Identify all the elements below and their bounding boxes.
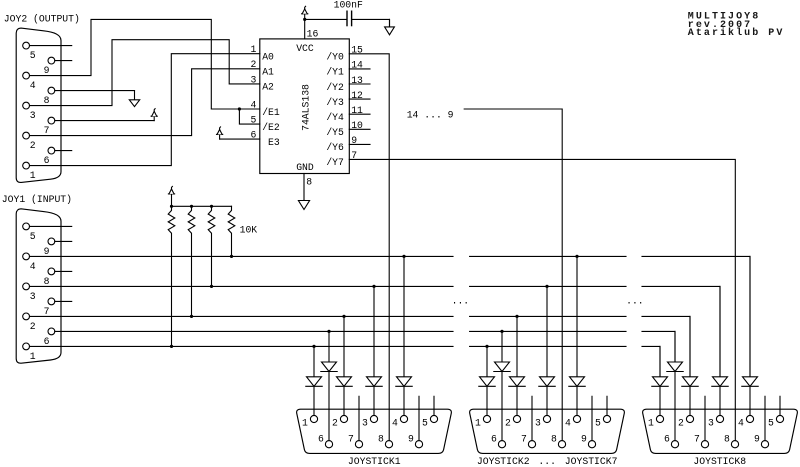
svg-text:6: 6 [664,434,670,445]
label JOY2 (OUTPUT) [4,14,80,25]
JOY2 pin circles and numbers [23,42,55,181]
wire diode to JOYSTICK8 pin1 [659,386,661,415]
svg-text:1: 1 [648,417,654,428]
power VCC above U1 [304,14,306,20]
svg-text:/Y4: /Y4 [326,112,344,123]
JOYSTICK1 pin circles and numbers [302,415,438,447]
resistor R2 10K [188,205,195,318]
wire JOYSTICK2 pin2 from bus [515,315,518,377]
svg-text:9: 9 [44,65,50,76]
label 14 ... 9 [407,110,454,121]
wire diode to JOYSTICK1 pin3 [373,386,375,415]
svg-text:2: 2 [678,417,684,428]
svg-text:2: 2 [505,417,511,428]
label JOY1 (INPUT) [2,194,72,205]
svg-text:8: 8 [724,434,730,445]
svg-text:8: 8 [44,276,50,287]
svg-text:4: 4 [392,417,398,428]
svg-text:JOYSTICK8: JOYSTICK8 [693,456,746,467]
diode D26 [494,362,510,372]
label JOYSTICK1 [348,456,401,467]
wire JOYSTICK2 pin3 from bus [545,285,548,377]
svg-text:JOY2 (OUTPUT): JOY2 (OUTPUT) [4,14,80,25]
svg-text:JOYSTICK2 ... JOYSTICK7: JOYSTICK2 ... JOYSTICK7 [477,456,618,467]
diode D22 [509,377,525,387]
wire JOY2 pin1 to U1 A0 [30,54,260,166]
diode D14 [396,377,412,387]
svg-text:74ALS138: 74ALS138 [301,84,312,131]
svg-text:3: 3 [30,110,36,121]
connector JOYSTICK8 body [643,409,798,453]
resistor R4 10K [228,206,235,258]
wire U1 E3 to VCC [220,138,260,140]
svg-text:3: 3 [250,74,256,85]
wire JOYSTICK8 pin3 from bus [719,286,721,376]
wire bus line JOY1 pin1 (right) [30,345,454,347]
wire JOY2 pin9 stub [55,60,72,62]
wire JOYSTICK1 pin6 from bus [327,330,330,362]
label 10K [240,224,258,235]
wire diode to JOYSTICK2 pin1 [486,386,488,415]
wire JOYSTICK8 pin2 from bus [689,316,691,376]
wire diode to JOYSTICK2 pin4 [576,386,578,415]
diode D86 [667,362,683,372]
wire JOYSTICK1 pin9 stub [418,396,420,440]
label pin number 8 [306,177,312,188]
svg-text:A1: A1 [262,67,274,78]
svg-text:9: 9 [754,434,760,445]
svg-text:8: 8 [378,434,384,445]
svg-text:6: 6 [44,155,50,166]
resistor R3 10K [208,205,215,288]
wire JOYSTICK2 pin1 from bus [485,345,488,377]
diode D11 [306,377,322,387]
ground below U1 [303,199,305,201]
svg-text:8: 8 [306,177,312,188]
wire diode to JOYSTICK1 pin4 [403,386,405,415]
wire U1 pin8 GND [303,174,305,201]
wire JOY2 pin5 stub [30,45,72,47]
wire JOYSTICK8 pin5 stub [779,396,781,415]
wire U1 pin16 VCC [304,19,306,39]
wire JOYSTICK1 pin2 from bus [342,315,345,377]
svg-text:VCC: VCC [296,43,314,54]
svg-text:5: 5 [422,417,428,428]
power VCC at JOY2 pin7 [153,116,155,120]
wire JOY2 pin7 to VCC [55,120,154,122]
wire diode to JOYSTICK1 pin1 [313,386,315,415]
wire pull-up rail [172,205,232,207]
wire diode to JOYSTICK2 pin2 [516,386,518,415]
label GND pin name [296,162,314,173]
wire JOY2 pin3 to U1 A2 [30,40,260,106]
diode D24 [569,377,585,387]
wire JOYSTICK1 pin5 stub [433,396,435,415]
resistor R1 10K [168,205,175,348]
svg-text:2: 2 [332,417,338,428]
wire diode to JOYSTICK8 pin2 [689,386,691,415]
svg-text:8: 8 [44,95,50,106]
wire JOYSTICK1 pin4 from bus [402,255,405,377]
wire JOYSTICK2 pin4 from bus [575,255,578,377]
svg-text:...: ... [626,295,644,306]
svg-text:100nF: 100nF [334,0,363,10]
svg-text:5: 5 [768,417,774,428]
wire diode to JOYSTICK1 pin6 [328,372,330,441]
wire JOY1 pin7 stub [55,300,72,302]
diode D81 [652,377,668,387]
svg-text:10K: 10K [240,224,258,235]
svg-text:8: 8 [551,434,557,445]
svg-text:1: 1 [30,170,36,181]
svg-text:9: 9 [581,434,587,445]
svg-text:/Y2: /Y2 [326,82,344,93]
wire VCC to capacitor [305,18,347,20]
svg-text:/Y1: /Y1 [326,67,344,78]
wire Y7 select to JOYSTICK8 pin8 [349,159,735,440]
label 100nF [334,0,363,10]
wire JOY2 pin8 to ground [55,90,135,92]
svg-text:JOY1 (INPUT): JOY1 (INPUT) [2,194,72,205]
svg-text:A2: A2 [262,82,274,93]
U1 output stubs Y1-Y6 [349,69,370,144]
ground at JOY2 pin8 [134,91,136,100]
wire diode to JOYSTICK2 pin6 [501,372,503,441]
wire diode to JOYSTICK8 pin6 [674,372,676,441]
svg-text:6: 6 [250,130,256,141]
wire bus line JOY1 pin2 (left) [30,315,454,317]
wire JOYSTICK1 pin7 stub [358,396,360,440]
diode D23 [539,377,555,387]
wire bus line JOY1 pin6 (trigger) [55,330,453,332]
diode D21 [479,377,495,387]
wire Y0 select to JOYSTICK1 pin8 [349,54,389,441]
svg-text:1: 1 [250,44,256,55]
diode D82 [682,377,698,387]
wire diode to JOYSTICK8 pin3 [719,386,721,415]
ground at capacitor [389,19,391,27]
diode D84 [742,377,758,387]
wire diode to JOYSTICK1 pin2 [343,386,345,415]
svg-text:/Y3: /Y3 [326,97,344,108]
diode D16 [321,362,337,372]
svg-text:7: 7 [348,434,354,445]
label U1 74ALS138 (rotated) [301,84,312,131]
wire JOY2 pin2 to U1 A1 [30,69,260,136]
svg-text:3: 3 [362,417,368,428]
wire JOYSTICK2 pin5 stub [606,396,608,415]
svg-text:7: 7 [694,434,700,445]
capacitor C1 100nF [347,11,352,25]
node E1/E2 junction [238,107,241,110]
diode D13 [366,377,382,387]
svg-text:3: 3 [708,417,714,428]
wire JOYSTICK8 pin6 from bus [674,331,676,362]
wire JOYSTICK1 pin1 from bus [312,345,315,377]
op-amp U1 74ALS138 body [260,39,350,174]
power VCC at pull-up rail [171,194,173,206]
connector JOY2 body [16,28,61,182]
svg-text:6: 6 [44,336,50,347]
diode D12 [336,377,352,387]
svg-text:3: 3 [30,291,36,302]
svg-text:3: 3 [535,417,541,428]
label JOYSTICK2 ... JOYSTICK7 [477,456,618,467]
svg-text:5: 5 [30,231,36,242]
wire JOYSTICK8 pin9 stub [764,396,766,440]
svg-text:5: 5 [595,417,601,428]
wire JOY2 pin6 stub [55,150,72,152]
svg-text:/Y7: /Y7 [326,157,344,168]
connector JOY1 body [16,209,61,363]
JOY1 pin circles and numbers [23,223,55,362]
wire bus line JOY1 pin3 (down) [30,285,454,287]
wire JOYSTICK2 pin6 from bus [500,330,503,362]
wire JOY1 pin9 stub [55,240,72,242]
JOYSTICK8 pin circles and numbers [648,415,784,447]
svg-text:9: 9 [408,434,414,445]
label pin number 16 [307,28,319,39]
connector JOYSTICK2 body [470,409,625,453]
JOYSTICK2 pin circles and numbers [475,415,611,447]
svg-text:/Y0: /Y0 [326,52,344,63]
wire bus line JOY1 pin4 (up) [30,255,454,257]
ellipsis between joystick groups 2 [626,295,644,306]
svg-text:16: 16 [307,28,319,39]
svg-text:/E2: /E2 [262,122,280,133]
svg-text:5: 5 [30,50,36,61]
label VCC pin name [296,43,314,54]
svg-text:5: 5 [250,115,256,126]
svg-text:...: ... [452,295,470,306]
svg-text:A0: A0 [262,52,274,63]
wire diode to JOYSTICK2 pin3 [546,386,548,415]
wire JOY2 pin4 to U1 E1/E2 [30,19,260,109]
title text MULTIJOY8 rev.2007 Atariklub PV [688,12,785,39]
svg-text:2: 2 [30,140,36,151]
wire JOYSTICK2 pin7 stub [531,396,533,440]
svg-text:2: 2 [250,59,256,70]
svg-text:6: 6 [318,434,324,445]
svg-text:1: 1 [475,417,481,428]
svg-text:6: 6 [491,434,497,445]
svg-text:14 ... 9: 14 ... 9 [407,110,454,121]
svg-text:1: 1 [302,417,308,428]
power VCC at U1 E3 [219,134,221,139]
label JOYSTICK8 [693,456,746,467]
svg-text:/Y6: /Y6 [326,142,344,153]
svg-text:2: 2 [30,321,36,332]
svg-text:/E1: /E1 [262,107,280,118]
wire capacitor to ground [352,19,390,27]
connector JOYSTICK1 body [297,409,452,453]
wire JOY1 pin8 stub [55,270,72,272]
svg-text:7: 7 [521,434,527,445]
svg-text:4: 4 [565,417,571,428]
svg-text:4: 4 [738,417,744,428]
wire JOYSTICK1 pin3 from bus [372,285,375,377]
diode D83 [712,377,728,387]
svg-text:GND: GND [296,162,314,173]
svg-text:7: 7 [44,125,50,136]
svg-text:1: 1 [30,351,36,362]
svg-text:4: 4 [250,99,256,110]
svg-text:/Y5: /Y5 [326,127,344,138]
wire JOYSTICK8 pin7 stub [704,396,706,440]
wire JOYSTICK8 pin1 from bus [659,346,661,376]
wire Y1..Y6 bundle to JOYSTICK2..7 pin8 [464,109,562,441]
svg-text:E3: E3 [262,137,280,148]
ellipsis between joystick groups 1 [452,295,470,306]
svg-text:7: 7 [44,306,50,317]
svg-text:JOYSTICK1: JOYSTICK1 [348,456,401,467]
U1 left pin names and numbers [250,44,279,148]
wire diode to JOYSTICK8 pin4 [749,386,751,415]
wire JOYSTICK2 pin9 stub [591,396,593,440]
wire JOYSTICK8 pin4 from bus [749,256,751,376]
svg-text:4: 4 [30,261,36,272]
U1 right pin names and numbers [326,45,363,169]
svg-text:9: 9 [44,246,50,257]
svg-text:4: 4 [30,80,36,91]
svg-text:Atariklub PV: Atariklub PV [688,27,785,39]
wire JOY1 pin5 stub [30,225,72,227]
node VCC junction [303,18,306,21]
